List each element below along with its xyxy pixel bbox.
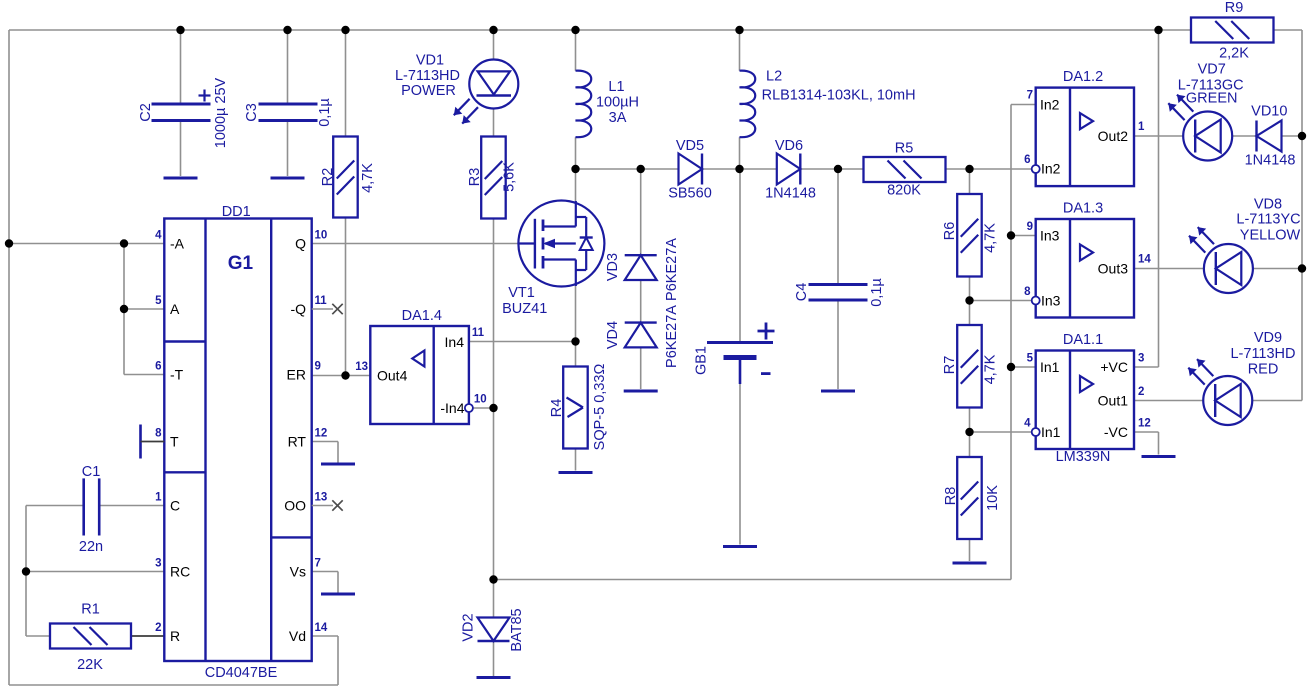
svg-text:5: 5 bbox=[1027, 353, 1034, 365]
svg-text:3: 3 bbox=[155, 558, 161, 570]
op-amp DA1.3 bbox=[1024, 201, 1151, 318]
svg-text:In3: In3 bbox=[1040, 228, 1060, 244]
wire RT to ground bbox=[312, 442, 338, 463]
svg-text:SQP-5 0,33Ω: SQP-5 0,33Ω bbox=[592, 364, 608, 451]
svg-text:820K: 820K bbox=[887, 183, 921, 199]
ground C2 bbox=[164, 177, 198, 180]
svg-text:In2: In2 bbox=[1041, 161, 1061, 177]
node dots top rail bbox=[176, 26, 1162, 34]
svg-text:1N4148: 1N4148 bbox=[1245, 152, 1296, 168]
svg-text:Out3: Out3 bbox=[1098, 261, 1129, 277]
svg-text:Out4: Out4 bbox=[377, 368, 408, 384]
wire left rail and bottom frame to Vd bbox=[9, 30, 338, 685]
svg-text:RT: RT bbox=[288, 434, 307, 450]
svg-text:VD9: VD9 bbox=[1254, 330, 1282, 346]
wire minus VC to ground bbox=[1134, 432, 1159, 455]
wire right rail bbox=[1274, 30, 1303, 401]
node dots divider chain bbox=[965, 296, 973, 436]
resistor R5 bbox=[864, 141, 946, 199]
wire Vs to ground bbox=[312, 572, 338, 593]
svg-text:9: 9 bbox=[315, 361, 321, 373]
LED VD8 bbox=[1189, 196, 1301, 293]
svg-text:BAT85: BAT85 bbox=[509, 608, 525, 651]
wire VD3 VD4 column bbox=[640, 169, 642, 389]
capacitor C1 bbox=[79, 464, 103, 555]
svg-text:In1: In1 bbox=[1040, 359, 1060, 375]
wire R2 bottom to ER node bbox=[345, 218, 347, 376]
svg-text:R5: R5 bbox=[895, 141, 914, 157]
svg-text:R6: R6 bbox=[942, 222, 958, 241]
wire Out3 to VD8 bbox=[1134, 268, 1204, 270]
transistor VT1 bbox=[502, 201, 604, 318]
ground R4 bbox=[559, 471, 593, 474]
wire ER to Out4 bbox=[312, 375, 371, 377]
node dot ER R2 bbox=[341, 371, 349, 379]
svg-text:9: 9 bbox=[1027, 221, 1033, 233]
ground RT bbox=[321, 463, 355, 466]
wire VT1 source to R4 bbox=[575, 286, 577, 367]
svg-text:3A: 3A bbox=[609, 110, 627, 126]
svg-text:In4: In4 bbox=[445, 334, 465, 350]
svg-text:10: 10 bbox=[474, 394, 487, 406]
svg-text:22n: 22n bbox=[79, 539, 103, 555]
svg-text:L-7113HD: L-7113HD bbox=[1230, 346, 1295, 362]
svg-text:4,7K: 4,7K bbox=[983, 354, 999, 384]
svg-text:11: 11 bbox=[472, 327, 485, 339]
svg-text:2: 2 bbox=[155, 622, 161, 634]
diode VD2 bbox=[461, 608, 526, 651]
wire VD7 to VD10 bbox=[1232, 135, 1256, 137]
node dot left rail A bbox=[5, 239, 13, 247]
wire sense rail to comparator plus inputs bbox=[1011, 105, 1036, 580]
svg-text:VD1: VD1 bbox=[416, 53, 444, 69]
wire In3 inverting input bbox=[970, 300, 1032, 302]
svg-text:L-7113HD: L-7113HD bbox=[395, 68, 460, 84]
inverting input circle In3 bbox=[1032, 297, 1040, 305]
svg-text:6: 6 bbox=[1024, 154, 1030, 166]
svg-text:CD4047BE: CD4047BE bbox=[205, 665, 278, 681]
op-amp DA1.2 bbox=[1024, 69, 1145, 186]
inverting input circle -In4 bbox=[465, 404, 473, 412]
ground GB1 bbox=[723, 545, 757, 548]
ground -VC bbox=[1142, 455, 1176, 458]
svg-text:C3: C3 bbox=[244, 103, 260, 122]
ground VD2 bbox=[477, 676, 511, 679]
svg-text:DA1.4: DA1.4 bbox=[402, 308, 442, 324]
wire VD5 to VD6 bbox=[702, 168, 777, 170]
node dot In4 source bbox=[571, 337, 579, 345]
svg-text:GB1: GB1 bbox=[694, 346, 710, 375]
wire plus VC rail bbox=[1134, 30, 1159, 367]
svg-text:14: 14 bbox=[1138, 254, 1151, 266]
pin number 7 In2 bbox=[1027, 90, 1033, 102]
svg-text:RC: RC bbox=[170, 564, 190, 580]
svg-text:YELLOW: YELLOW bbox=[1240, 228, 1301, 244]
svg-text:12: 12 bbox=[1138, 418, 1151, 430]
wire RC pin bbox=[26, 571, 164, 573]
svg-text:5,6K: 5,6K bbox=[502, 162, 518, 192]
svg-text:Out2: Out2 bbox=[1098, 128, 1129, 144]
resistor R9 bbox=[1191, 0, 1274, 62]
svg-text:RLB1314-103KL, 10mH: RLB1314-103KL, 10mH bbox=[762, 88, 916, 104]
svg-text:C1: C1 bbox=[82, 464, 101, 480]
capacitor C2 bbox=[138, 30, 229, 176]
svg-text:In3: In3 bbox=[1041, 293, 1061, 309]
wire R2 top bbox=[345, 30, 347, 137]
wire In4 pin to VT1 source column bbox=[469, 341, 576, 343]
svg-text:P6KE27A: P6KE27A bbox=[664, 238, 680, 301]
svg-text:Vs: Vs bbox=[290, 564, 306, 580]
svg-text:R3: R3 bbox=[467, 168, 483, 187]
wire VD2 node long bottom wire bbox=[494, 579, 1012, 581]
ground VD3 VD4 bbox=[624, 390, 658, 393]
svg-text:4: 4 bbox=[155, 230, 162, 242]
wire VD1 column top bbox=[493, 30, 495, 60]
svg-text:VD4: VD4 bbox=[605, 321, 621, 349]
wire VD1 to R3 bbox=[493, 109, 495, 137]
NC mark -Q bbox=[312, 304, 343, 314]
inverting input circle In1 bbox=[1032, 428, 1040, 436]
wire L1 top bbox=[575, 30, 577, 71]
node dot VD2 bbox=[489, 575, 497, 583]
capacitor C3 bbox=[244, 30, 333, 176]
svg-text:10: 10 bbox=[315, 230, 328, 242]
op-amp DA1.1 LM339N bbox=[1024, 332, 1151, 465]
svg-text:-T: -T bbox=[170, 367, 184, 383]
op-amp DA1.4 bbox=[355, 308, 486, 424]
wire C pin to C1 and left column bbox=[26, 506, 164, 637]
svg-text:+VC: +VC bbox=[1100, 359, 1128, 375]
svg-text:In2: In2 bbox=[1040, 97, 1060, 113]
svg-text:6: 6 bbox=[155, 361, 161, 373]
svg-text:VD5: VD5 bbox=[676, 138, 704, 154]
svg-text:VT1: VT1 bbox=[508, 285, 535, 301]
svg-text:0,1µ: 0,1µ bbox=[317, 98, 333, 127]
wire L2 top bbox=[739, 30, 741, 71]
T pin tie bar bbox=[141, 425, 165, 459]
svg-text:13: 13 bbox=[315, 492, 328, 504]
wire Q output to VT1 gate bbox=[312, 243, 519, 245]
wire R3 bottom to -In4 node and VD2 node bbox=[493, 219, 495, 580]
svg-text:L2: L2 bbox=[766, 69, 782, 85]
wire A / -T branch bbox=[124, 244, 164, 375]
svg-text:22K: 22K bbox=[77, 657, 103, 673]
ground R8 bbox=[953, 562, 987, 565]
inverting input circle In2 bbox=[1032, 165, 1040, 173]
wire R6 R7 R8 chain bbox=[969, 169, 971, 561]
svg-text:P6KE27A: P6KE27A bbox=[664, 305, 680, 368]
wire L1 to VT1 drain bbox=[575, 137, 577, 201]
svg-text:C: C bbox=[170, 498, 180, 514]
svg-text:G1: G1 bbox=[228, 253, 254, 274]
diode VD5 bbox=[668, 138, 712, 202]
NC mark OO bbox=[312, 500, 343, 510]
wire In1 inverting input bbox=[970, 431, 1032, 433]
svg-text:DA1.1: DA1.1 bbox=[1063, 332, 1103, 348]
inductor L1 bbox=[576, 71, 640, 138]
node dots sense rail bbox=[1007, 231, 1015, 371]
diode VD6 bbox=[765, 138, 816, 202]
svg-text:10K: 10K bbox=[985, 485, 1001, 511]
node dot RC bbox=[22, 567, 30, 575]
svg-text:POWER: POWER bbox=[401, 83, 456, 99]
svg-text:OO: OO bbox=[284, 498, 306, 514]
wire Out1 to VD9 bbox=[1134, 400, 1203, 402]
capacitor C4 bbox=[794, 278, 885, 307]
wire R1 to R pin bbox=[26, 635, 164, 637]
wire -A input from left rail bbox=[9, 243, 164, 245]
node dots right rail bbox=[1298, 132, 1306, 273]
svg-text:VD3: VD3 bbox=[605, 253, 621, 281]
svg-text:R4: R4 bbox=[549, 399, 565, 418]
svg-text:R9: R9 bbox=[1225, 0, 1244, 16]
resistor R1 bbox=[50, 602, 131, 674]
wire VD8 to right rail bbox=[1253, 268, 1302, 270]
svg-text:R: R bbox=[170, 628, 180, 644]
inductor L2 bbox=[740, 69, 916, 137]
diode VD10 bbox=[1245, 103, 1296, 168]
wire R5 to In2 inverting input bbox=[946, 168, 1032, 170]
svg-text:VD7: VD7 bbox=[1198, 62, 1226, 78]
svg-text:VD10: VD10 bbox=[1251, 103, 1287, 119]
wire GB1 leads bbox=[739, 169, 741, 545]
wire L2 bottom to mid rail bbox=[739, 137, 741, 169]
LED VD9 bbox=[1188, 330, 1295, 425]
svg-text:VD8: VD8 bbox=[1254, 196, 1282, 212]
svg-text:7: 7 bbox=[1027, 90, 1033, 102]
wire C4 leads bbox=[837, 169, 839, 389]
wire top supply rail bbox=[9, 29, 1191, 31]
svg-text:DD1: DD1 bbox=[222, 204, 251, 220]
svg-text:R8: R8 bbox=[943, 487, 959, 506]
svg-text:11: 11 bbox=[315, 295, 328, 307]
svg-text:SB560: SB560 bbox=[668, 186, 712, 202]
node dots A branch bbox=[120, 239, 128, 313]
svg-text:T: T bbox=[170, 434, 179, 450]
svg-text:DA1.2: DA1.2 bbox=[1063, 69, 1103, 85]
svg-text:-VC: -VC bbox=[1104, 424, 1128, 440]
svg-text:-In4: -In4 bbox=[440, 400, 464, 416]
svg-text:8: 8 bbox=[1024, 286, 1031, 298]
svg-text:ER: ER bbox=[287, 367, 306, 383]
svg-text:Q: Q bbox=[295, 236, 306, 252]
resistor R6 bbox=[942, 194, 999, 277]
TVS diode VD3 bbox=[605, 238, 680, 301]
svg-text:-A: -A bbox=[170, 236, 185, 252]
svg-text:C2: C2 bbox=[138, 103, 154, 122]
resistor R7 bbox=[942, 325, 999, 408]
svg-text:R7: R7 bbox=[942, 356, 958, 375]
svg-text:7: 7 bbox=[315, 558, 321, 570]
svg-text:L-7113YC: L-7113YC bbox=[1236, 212, 1300, 228]
ground C3 bbox=[271, 177, 305, 180]
wire VD6 to R5 bbox=[800, 168, 863, 170]
svg-text:LM339N: LM339N bbox=[1056, 449, 1111, 465]
LED VD1 bbox=[395, 53, 518, 124]
svg-text:3: 3 bbox=[1138, 353, 1144, 365]
svg-text:0,1µ: 0,1µ bbox=[869, 278, 885, 307]
svg-text:4,7K: 4,7K bbox=[360, 163, 376, 193]
svg-text:2: 2 bbox=[1138, 386, 1144, 398]
svg-text:VD2: VD2 bbox=[461, 613, 477, 641]
svg-text:L1: L1 bbox=[608, 79, 624, 95]
svg-text:C4: C4 bbox=[794, 283, 810, 302]
battery GB1 bbox=[694, 323, 775, 385]
wire VD2 to ground bbox=[493, 580, 495, 677]
svg-text:Out1: Out1 bbox=[1098, 393, 1129, 409]
TVS diode VD4 bbox=[605, 305, 680, 368]
LED VD7 bbox=[1168, 62, 1243, 161]
svg-text:A: A bbox=[170, 301, 180, 317]
svg-text:12: 12 bbox=[315, 428, 328, 440]
svg-text:R2: R2 bbox=[320, 168, 336, 187]
resistor R2 bbox=[320, 137, 376, 218]
svg-text:In1: In1 bbox=[1041, 424, 1061, 440]
svg-text:1: 1 bbox=[1138, 121, 1145, 133]
wire VD10 to right rail bbox=[1282, 135, 1302, 137]
svg-text:DA1.3: DA1.3 bbox=[1063, 201, 1103, 217]
svg-text:14: 14 bbox=[315, 622, 328, 634]
resistor R3 bbox=[467, 137, 518, 219]
IC DD1 CD4047BE bbox=[155, 204, 328, 681]
svg-text:100µH: 100µH bbox=[596, 95, 639, 111]
svg-text:Vd: Vd bbox=[289, 628, 306, 644]
svg-text:4: 4 bbox=[1024, 418, 1031, 430]
svg-text:13: 13 bbox=[355, 361, 368, 373]
wire mid rail VT1 drain to VD5 bbox=[576, 168, 679, 170]
svg-text:1: 1 bbox=[155, 492, 162, 504]
wire R4 to ground bbox=[575, 449, 577, 471]
svg-text:R1: R1 bbox=[81, 602, 100, 618]
svg-text:-Q: -Q bbox=[290, 301, 306, 317]
svg-text:2,2K: 2,2K bbox=[1219, 46, 1249, 62]
wire Out2 to VD7 bbox=[1134, 135, 1183, 137]
svg-text:1N4148: 1N4148 bbox=[765, 186, 816, 202]
wire VD9 to right rail bbox=[1252, 400, 1302, 402]
svg-text:1000µ 25V: 1000µ 25V bbox=[213, 77, 229, 148]
svg-text:4,7K: 4,7K bbox=[983, 223, 999, 253]
node dots mid rail bbox=[571, 165, 973, 173]
node dot -In4 R3 bbox=[489, 404, 497, 412]
svg-text:VD6: VD6 bbox=[775, 138, 803, 154]
ground Vs bbox=[321, 593, 355, 596]
svg-text:RED: RED bbox=[1248, 362, 1279, 378]
svg-text:8: 8 bbox=[155, 428, 162, 440]
ground C4 bbox=[821, 390, 855, 393]
resistor R8 bbox=[943, 457, 1001, 539]
resistor R4 bbox=[549, 364, 608, 451]
svg-text:GREEN: GREEN bbox=[1186, 91, 1238, 107]
svg-text:5: 5 bbox=[155, 295, 162, 307]
svg-text:BUZ41: BUZ41 bbox=[502, 301, 547, 317]
wire -In4 pin bbox=[473, 407, 494, 409]
